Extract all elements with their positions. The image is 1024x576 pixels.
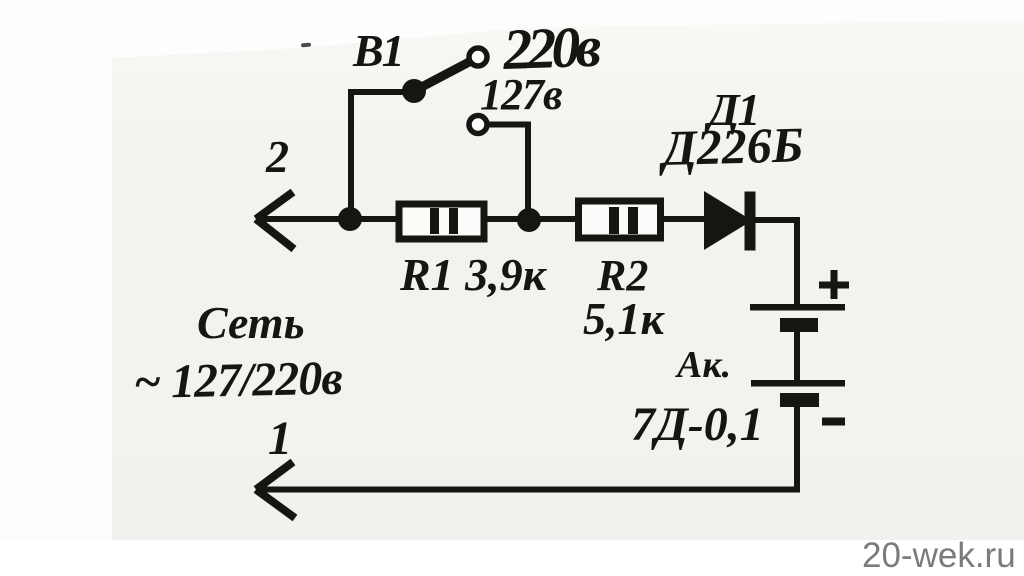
svg-text:5,1к: 5,1к (583, 293, 666, 344)
svg-text:2: 2 (265, 131, 289, 182)
svg-text:127в: 127в (480, 70, 562, 119)
svg-text:Д226Б: Д226Б (658, 116, 804, 176)
svg-text:Ак.: Ак. (675, 344, 731, 386)
svg-text:7Д-0,1: 7Д-0,1 (631, 398, 764, 451)
svg-text:В1: В1 (352, 25, 403, 76)
svg-text:20-wek.ru: 20-wek.ru (862, 536, 1016, 575)
svg-text:~ 127/220в: ~ 127/220в (133, 352, 343, 409)
svg-text:1: 1 (268, 412, 292, 465)
svg-text:R1 3,9к: R1 3,9к (399, 249, 548, 300)
svg-text:Сеть: Сеть (197, 297, 305, 348)
